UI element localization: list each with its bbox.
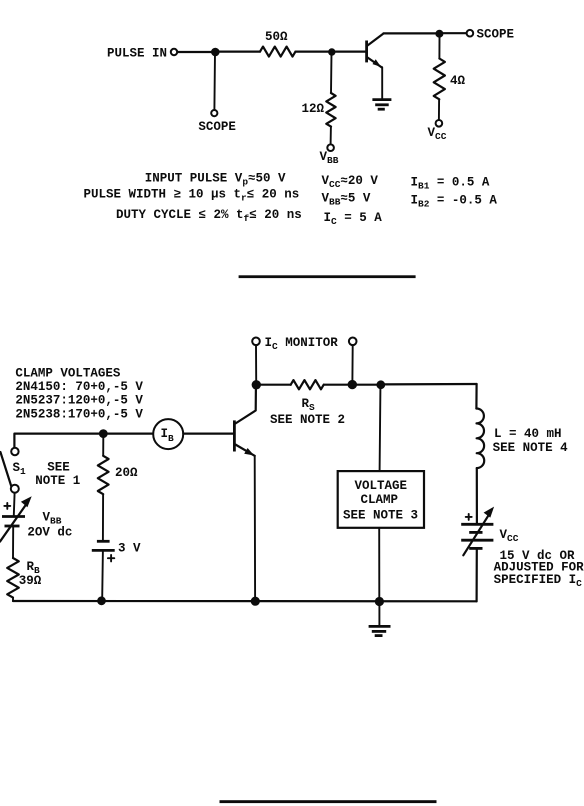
node junction input	[211, 48, 220, 57]
svg-text:SEE: SEE	[47, 461, 70, 475]
transistor Q1 collector lead	[368, 34, 384, 46]
node junction collector	[435, 30, 443, 38]
terminal IC monitor right	[349, 338, 357, 346]
svg-text:2N5238:170+0,-5 V: 2N5238:170+0,-5 V	[15, 407, 143, 421]
svg-text:12Ω: 12Ω	[302, 102, 325, 116]
terminal IC monitor left	[252, 338, 260, 346]
svg-text:VOLTAGE: VOLTAGE	[355, 479, 408, 493]
transistor Q2 base bar	[233, 420, 236, 451]
wire 4 ohm drop	[438, 38, 440, 59]
node junction base	[328, 48, 335, 55]
wire ground stub	[378, 604, 380, 625]
svg-text:20Ω: 20Ω	[115, 466, 138, 480]
wire VBB to RB	[12, 526, 14, 558]
wire	[443, 32, 467, 34]
terminal VBB	[327, 144, 334, 151]
node junction ground	[375, 597, 384, 606]
transistor Q2 collector lead	[235, 389, 256, 424]
source VCC bar short 1	[469, 531, 482, 534]
svg-text:4Ω: 4Ω	[450, 74, 466, 88]
wire battery to bottom rail	[101, 550, 104, 598]
transistor Q2 emitter arrowhead	[244, 448, 254, 456]
svg-text:SCOPE: SCOPE	[477, 28, 515, 42]
wire VCC source to bottom rail	[476, 548, 478, 601]
wire clamp drop upper	[379, 389, 382, 471]
svg-text:VBB≈5 V: VBB≈5 V	[322, 192, 371, 208]
wire	[332, 50, 366, 52]
svg-text:CLAMP: CLAMP	[361, 493, 399, 507]
source VBB plus sign	[4, 503, 10, 509]
svg-text:PULSE WIDTH ≥ 10 μs tr≤ 20 ns: PULSE WIDTH ≥ 10 μs tr≤ 20 ns	[84, 188, 300, 204]
switch S1 terminal top	[11, 448, 18, 455]
transistor Q2 emitter lead	[235, 445, 254, 456]
divider line bottom	[220, 800, 437, 803]
transistor Q1 emitter arrowhead	[373, 59, 382, 67]
source VCC bar long 2	[461, 539, 493, 542]
wire junction2 to junction3	[352, 384, 381, 386]
wire meter to base	[183, 433, 233, 435]
wire	[215, 50, 260, 52]
source VCC bar long 1	[461, 523, 493, 526]
node junction emitter bottom	[251, 597, 260, 606]
svg-text:2OV dc: 2OV dc	[27, 526, 72, 540]
resistor 12 ohm	[326, 93, 335, 127]
svg-text:2N5237:120+0,-5 V: 2N5237:120+0,-5 V	[15, 394, 143, 408]
source VCC plus sign	[466, 514, 472, 520]
wire collector top	[384, 32, 440, 34]
wire 12 ohm drop	[330, 52, 333, 93]
box voltage clamp	[338, 471, 424, 528]
terminal SCOPE lower	[211, 110, 217, 116]
wire	[296, 50, 332, 52]
transistor Q1 emitter lead	[368, 58, 382, 68]
wire	[438, 99, 440, 120]
source VCC bar short 2	[469, 547, 482, 550]
wire	[330, 127, 332, 145]
wire	[177, 51, 212, 53]
wire main base rail left	[14, 434, 153, 448]
node junction clamp	[376, 380, 385, 389]
switch S1 terminal bottom	[11, 485, 19, 493]
svg-text:3 V: 3 V	[118, 542, 141, 556]
wire monitor left drop	[255, 345, 257, 380]
wire S1 to VBB source	[13, 493, 16, 516]
ground Q1	[372, 100, 391, 110]
svg-text:DUTY CYCLE ≤ 2% tf≤ 20 ns: DUTY CYCLE ≤ 2% tf≤ 20 ns	[116, 208, 302, 224]
svg-text:2N4150: 70+0,-5 V: 2N4150: 70+0,-5 V	[15, 380, 143, 394]
source VBB bar long	[2, 515, 25, 518]
transistor Q1 base bar	[365, 41, 368, 63]
terminal SCOPE upper	[467, 30, 474, 37]
battery 3V plus sign	[108, 555, 114, 561]
svg-text:NOTE 1: NOTE 1	[35, 474, 80, 488]
source VBB arrowhead	[21, 496, 32, 507]
source VCC arrowhead	[484, 507, 495, 518]
inductor L	[476, 408, 484, 468]
wire right rail down to inductor	[475, 384, 477, 409]
wire emitter Q2 drop	[254, 456, 256, 598]
wire scope drop	[213, 52, 216, 110]
wire junction3 to right rail	[381, 383, 477, 386]
svg-text:SEE NOTE 2: SEE NOTE 2	[270, 413, 345, 427]
wire RS to junction 2	[324, 384, 352, 386]
svg-text:50Ω: 50Ω	[265, 30, 288, 44]
wire bottom rail	[13, 600, 477, 602]
wire emitter to ground	[381, 67, 383, 98]
resistor 4 ohm	[434, 59, 445, 100]
svg-text:SEE NOTE 4: SEE NOTE 4	[493, 441, 569, 455]
svg-text:SCOPE: SCOPE	[198, 120, 236, 134]
meter IB circle	[153, 419, 183, 449]
svg-text:CLAMP VOLTAGES: CLAMP VOLTAGES	[15, 367, 121, 381]
resistor 20 ohm	[98, 456, 109, 494]
wire RB to bottom rail	[12, 598, 14, 601]
svg-text:PULSE IN: PULSE IN	[107, 47, 167, 61]
svg-text:SPECIFIED IC: SPECIFIED IC	[494, 573, 583, 589]
svg-text:INPUT PULSE Vp≈50 V: INPUT PULSE Vp≈50 V	[145, 172, 286, 188]
node junction collector Q2	[252, 380, 261, 389]
battery 3V bar long	[92, 549, 115, 552]
node junction 20 ohm	[99, 429, 108, 438]
svg-text:39Ω: 39Ω	[19, 574, 42, 588]
node junction battery bottom	[97, 596, 106, 605]
resistor RS	[291, 380, 324, 389]
resistor 50 ohm	[260, 47, 295, 57]
source VBB arrow	[0, 504, 27, 542]
battery 3V bar short	[97, 540, 110, 543]
terminal VCC top	[436, 120, 443, 127]
ground bottom	[369, 626, 391, 635]
divider line mid	[239, 275, 416, 278]
wire junction to 20 ohm	[102, 438, 104, 456]
node junction monitor right	[348, 380, 357, 389]
wire 20 ohm to battery	[102, 494, 104, 541]
source VBB bar short	[5, 525, 20, 528]
terminal PULSE IN	[171, 49, 177, 55]
wire monitor right drop	[351, 345, 353, 380]
svg-text:L = 40 mH: L = 40 mH	[494, 427, 562, 441]
switch S1 blade	[0, 452, 11, 486]
source VCC arrow	[463, 515, 489, 556]
wire clamp drop lower	[378, 528, 380, 598]
wire junction to RS	[256, 384, 290, 386]
svg-text:SEE NOTE 3: SEE NOTE 3	[343, 509, 418, 523]
wire inductor to VCC source	[476, 468, 478, 524]
resistor RB	[7, 558, 19, 598]
